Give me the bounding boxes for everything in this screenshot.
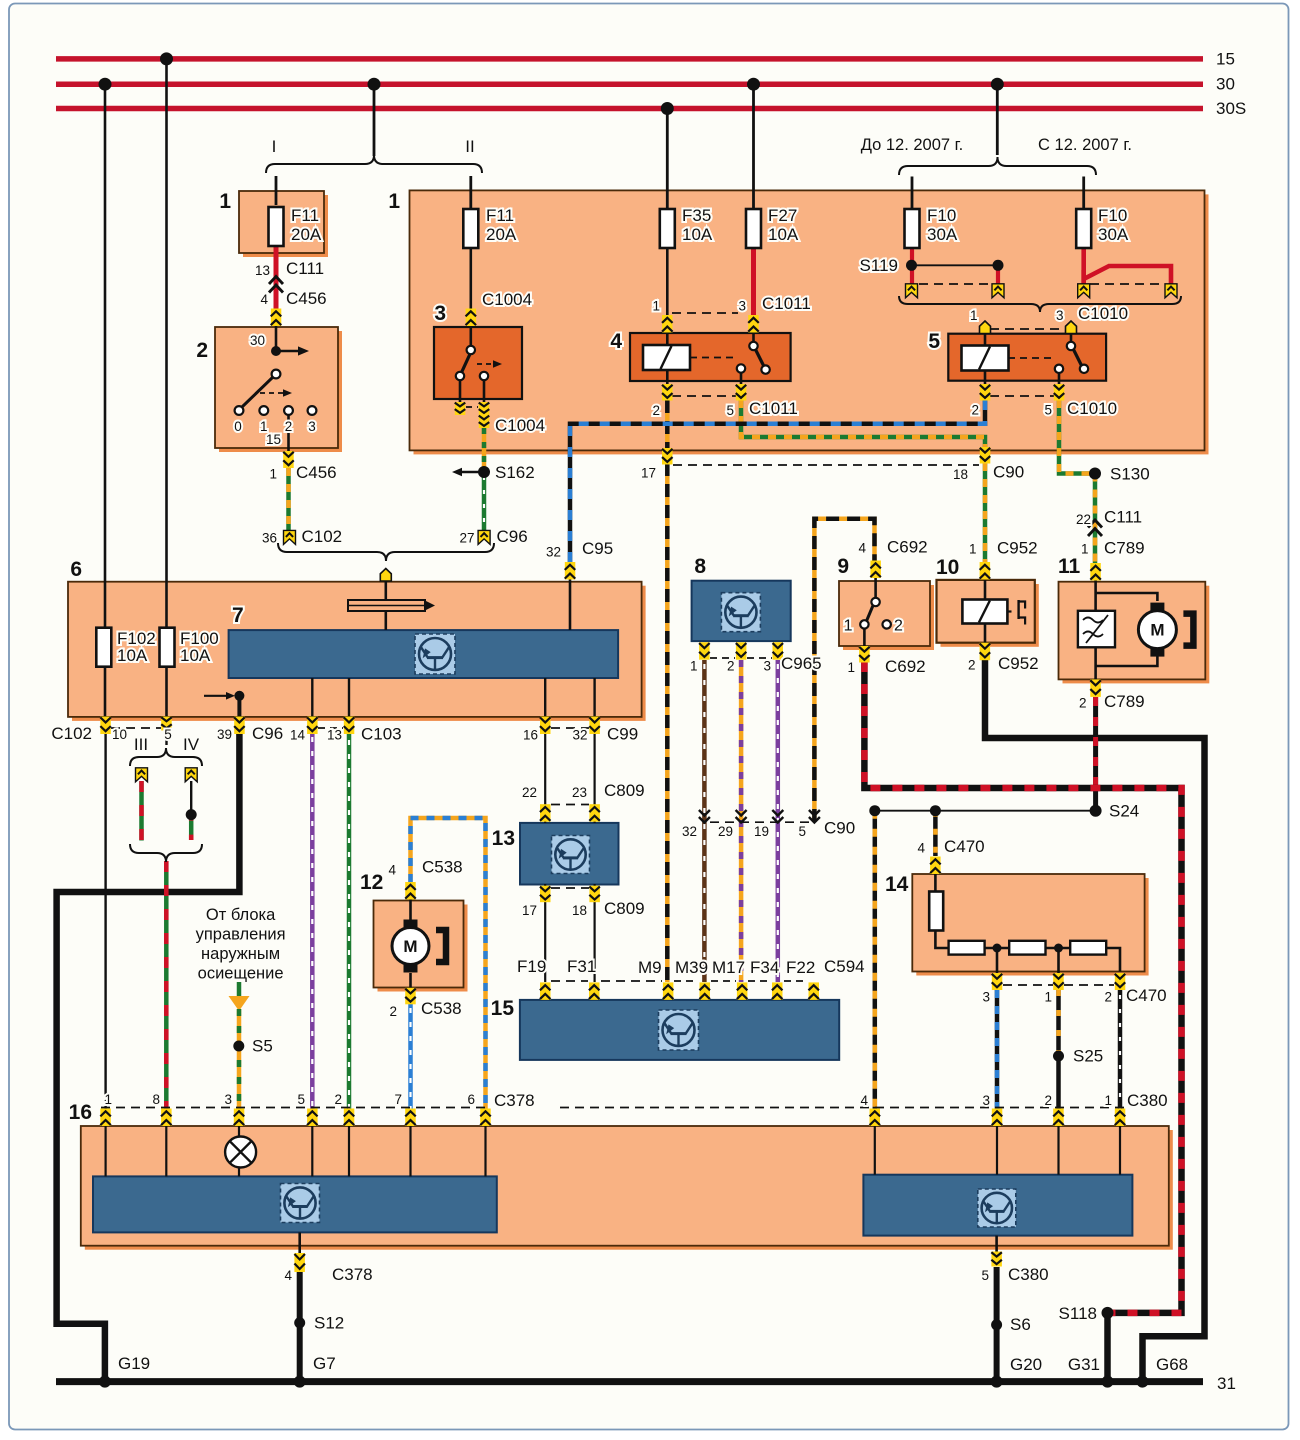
svg-text:C809: C809	[604, 899, 645, 918]
wire C470-2 to C380-1 black-white	[1118, 990, 1123, 1109]
svg-text:4: 4	[260, 292, 268, 307]
block7 key symbol	[348, 600, 425, 611]
junction IV dot	[186, 809, 197, 820]
wire C456-1 to C102-36 green-orange	[286, 468, 291, 531]
svg-text:2: 2	[1079, 696, 1087, 711]
relay 3 box	[434, 327, 522, 399]
svg-text:5: 5	[164, 727, 172, 742]
svg-text:C90: C90	[824, 819, 855, 838]
dashed row C378	[101, 1107, 488, 1109]
svg-text:G68: G68	[1156, 1355, 1188, 1374]
svg-text:F35: F35	[682, 206, 711, 225]
block 8 module	[692, 581, 791, 641]
svg-text:C96: C96	[252, 724, 283, 743]
relay10 thermal contact	[1008, 610, 1015, 612]
brace C1010 inputs	[899, 296, 1181, 312]
svg-text:C692: C692	[887, 538, 928, 557]
svg-text:27: 27	[459, 531, 474, 546]
svg-text:4: 4	[610, 330, 622, 353]
wire brace II to fuse F11 right	[469, 176, 472, 210]
svg-text:S25: S25	[1073, 1047, 1103, 1066]
wire block9 C692-4 feed orange-black	[814, 519, 874, 822]
svg-text:11: 11	[1058, 555, 1081, 578]
connector C103-14	[307, 717, 318, 735]
wire C470-3 to C380-3 blue-black	[995, 990, 1000, 1109]
wire block16 right internals	[874, 1126, 876, 1175]
svg-text:4: 4	[860, 1093, 868, 1108]
svg-text:S5: S5	[252, 1037, 273, 1056]
wire C1004 to relay3 contact	[469, 326, 472, 350]
wire relay4 coil through	[666, 330, 669, 385]
block 2 ignition switch	[219, 331, 342, 452]
wire C103-14 to pin5 purple-white	[310, 733, 315, 1109]
connector C103-13	[344, 717, 355, 735]
svg-text:управления: управления	[196, 926, 286, 944]
svg-text:4: 4	[388, 863, 396, 878]
block7 transistor icon	[415, 634, 455, 674]
dashed row C809 bottom	[551, 887, 589, 889]
svg-text:6: 6	[70, 558, 82, 581]
svg-text:C102: C102	[302, 527, 343, 546]
connector C594 row	[540, 982, 551, 1000]
ignition switch block2	[271, 346, 281, 356]
svg-text:C538: C538	[422, 858, 463, 877]
connector C99-16	[540, 717, 551, 735]
connector C90-18	[980, 447, 991, 464]
svg-text:10: 10	[936, 556, 959, 579]
svg-text:C789: C789	[1104, 692, 1145, 711]
svg-text:2: 2	[727, 659, 735, 674]
block 11 heater fan motor	[1063, 586, 1210, 684]
connector C111-22 inline	[1088, 520, 1102, 528]
svg-text:3: 3	[738, 299, 746, 314]
wire block9 contact1 to C692-1	[863, 628, 866, 646]
wire S5 to block16 pin3 orange-green	[237, 1009, 242, 1109]
svg-text:F11: F11	[291, 206, 319, 225]
svg-text:5: 5	[297, 1092, 305, 1107]
block 13 module	[520, 823, 619, 885]
svg-text:32: 32	[682, 824, 697, 839]
wire C103-13 to pin2 green-white	[347, 733, 352, 1109]
bus 30	[56, 81, 1203, 87]
connector C456 bottom block2	[283, 451, 294, 468]
connector C1011-3	[748, 315, 759, 333]
dashed row C594	[551, 980, 588, 982]
svg-text:C99: C99	[607, 725, 638, 744]
wire F10 left to S119 red	[910, 249, 914, 285]
wire C952-2 to G68 thick black	[985, 660, 1205, 1382]
svg-text:22: 22	[1076, 512, 1091, 527]
svg-text:1: 1	[1104, 1093, 1112, 1108]
svg-text:3: 3	[308, 419, 316, 434]
relay4 coil	[643, 345, 690, 370]
wire filter to C789-2	[1094, 647, 1097, 680]
svg-text:C111: C111	[1104, 508, 1142, 527]
block 15 module	[520, 1000, 839, 1060]
svg-text:2: 2	[1104, 990, 1112, 1005]
dashed row C1011 top	[672, 312, 738, 314]
svg-text:До 12. 2007 г.: До 12. 2007 г.	[861, 136, 964, 154]
wire relay5 pin2 to C95 blue-black	[570, 400, 985, 562]
wire C456 to switch contact 30	[275, 325, 278, 351]
connector C809-17	[540, 886, 551, 903]
svg-text:C1004: C1004	[495, 416, 545, 435]
fuse F10 before 2007	[905, 209, 920, 248]
svg-text:16: 16	[523, 728, 538, 743]
block 10 relay	[941, 584, 1039, 647]
connector C102-36 end	[284, 530, 296, 544]
connector C96-39	[234, 717, 245, 735]
svg-text:17: 17	[641, 466, 656, 481]
wire C99-32 to C809-23	[593, 733, 595, 805]
ground G20	[991, 1376, 1003, 1388]
svg-text:F34: F34	[750, 958, 779, 977]
wire C95 to block7	[569, 579, 572, 630]
svg-text:30S: 30S	[1216, 99, 1246, 118]
wire block16 left out to C378-4	[298, 1232, 301, 1253]
svg-text:C952: C952	[998, 654, 1039, 673]
wire F11 right to C1004	[469, 249, 472, 310]
junction dots block14	[993, 944, 1002, 953]
wire brace to F10 right	[1082, 177, 1085, 211]
svg-text:S130: S130	[1110, 465, 1150, 484]
wire relay5 pin5 to S130 green-orange	[1059, 400, 1095, 474]
connector C1010-3 pentagon	[1066, 321, 1077, 334]
junction S162	[478, 466, 490, 478]
junction S12	[294, 1317, 305, 1328]
connector C102-10	[100, 717, 111, 735]
svg-text:5: 5	[1044, 403, 1052, 418]
svg-text:S162: S162	[495, 463, 535, 482]
svg-text:M17: M17	[712, 958, 745, 977]
svg-text:2: 2	[334, 1092, 342, 1107]
svg-text:F11: F11	[486, 206, 514, 225]
connector pentagon block7 input	[380, 569, 391, 582]
wire relay4 contact down	[740, 372, 743, 385]
svg-text:8: 8	[152, 1092, 160, 1107]
svg-text:14: 14	[290, 728, 306, 743]
svg-text:5: 5	[981, 1268, 989, 1283]
svg-text:31: 31	[1217, 1374, 1236, 1393]
fuse F11 right	[463, 209, 478, 248]
wire block6 pin5 stub	[165, 733, 167, 745]
junction S24 line dots	[869, 805, 880, 816]
connector C1011-1	[662, 315, 673, 333]
svg-text:3: 3	[1056, 308, 1064, 323]
dashed row C103 block6	[318, 727, 343, 729]
connector C809-22	[540, 804, 551, 822]
dashed row C470	[1003, 984, 1053, 986]
junction bus30 x997	[991, 78, 1004, 91]
relay10 coil	[962, 600, 1007, 624]
fuse F10 after 2007	[1076, 209, 1091, 248]
wire brace to F10 left	[911, 177, 914, 211]
wire relay4 contact3 top	[752, 330, 755, 346]
relay4 dashed link	[690, 357, 738, 359]
connector C538-4	[405, 882, 416, 900]
wire brace I to block1 left	[275, 176, 278, 205]
wire block14 tap3	[996, 948, 999, 973]
connector S119 row	[906, 284, 918, 298]
svg-text:12: 12	[360, 871, 383, 894]
svg-text:S6: S6	[1010, 1315, 1031, 1334]
connector block6 pin5	[161, 717, 172, 731]
dashed row S119 connectors	[919, 283, 991, 285]
wire block8 pin2 to M17 orange-purple	[739, 660, 744, 982]
svg-text:F22: F22	[786, 958, 815, 977]
brace III IV top	[130, 748, 202, 766]
wire bus30S to fuse F35	[666, 109, 669, 211]
wire C809-17 to F19	[544, 902, 546, 982]
svg-text:C380: C380	[1008, 1265, 1049, 1284]
svg-text:C809: C809	[604, 781, 645, 800]
svg-text:C594: C594	[824, 957, 865, 976]
wire S119 line	[912, 264, 998, 266]
svg-text:4: 4	[284, 1268, 292, 1283]
connector C1010-2	[980, 384, 991, 401]
svg-text:M: M	[1150, 621, 1164, 640]
ground G31	[1102, 1376, 1114, 1388]
svg-text:C1011: C1011	[749, 399, 798, 418]
wire S119 right drop red	[996, 265, 1000, 284]
svg-text:C1010: C1010	[1067, 399, 1117, 418]
wire block6 arrow dot to C96-39	[237, 696, 241, 717]
svg-text:14: 14	[885, 873, 909, 896]
block 6 fuse box	[72, 586, 646, 721]
svg-text:C470: C470	[944, 837, 985, 856]
connector C470 row	[992, 973, 1003, 990]
connector C378 row	[100, 1109, 111, 1127]
relay 4 box	[630, 333, 791, 381]
wire F35 to relay4 pin1	[666, 249, 669, 317]
connector C1004 top relay3	[466, 309, 477, 327]
connector C965 row	[699, 642, 710, 660]
connector C99-32	[589, 717, 600, 735]
connector C1010-1 pentagon	[980, 321, 991, 334]
block12 motor	[404, 920, 418, 929]
svg-text:F27: F27	[768, 206, 797, 225]
brace 2007	[899, 157, 1096, 175]
junction S24	[1090, 805, 1102, 817]
wire S24 to block16 pin4 black-orange	[873, 811, 878, 1109]
fuse F11 left	[269, 207, 284, 246]
dashed row C809 top	[551, 804, 589, 806]
junction S25	[1053, 1051, 1064, 1062]
block 16 right inner module	[863, 1175, 1132, 1236]
svg-text:3: 3	[982, 1093, 990, 1108]
svg-text:M39: M39	[675, 958, 708, 977]
wire block11 branch to motor	[1096, 593, 1158, 601]
wire S130 to C789-1 green-orange	[1093, 474, 1098, 565]
ground bus 31	[56, 1378, 1203, 1385]
block15 transistor icon	[659, 1010, 699, 1050]
svg-text:C952: C952	[997, 539, 1038, 558]
svg-text:7: 7	[394, 1092, 402, 1107]
wire motor bottom to main	[1096, 656, 1158, 666]
connector C456 top block2	[271, 309, 282, 327]
connector III end	[136, 768, 148, 782]
wire C789-1 into block11	[1094, 580, 1097, 612]
svg-text:2: 2	[971, 403, 979, 418]
connector C380 row	[992, 1109, 1003, 1127]
svg-text:10A: 10A	[768, 225, 799, 244]
connector C789-2	[1090, 679, 1101, 697]
wire relay3 contacts down	[459, 376, 462, 402]
wire bus30 to fuse F27	[752, 84, 755, 210]
block 1 fuse relay box right	[414, 194, 1209, 454]
brace III IV bottom	[130, 844, 202, 862]
dashed row C102 block6	[111, 727, 161, 729]
connector C952-1	[980, 562, 991, 580]
wire S25 to C380-2	[1056, 1056, 1061, 1109]
svg-text:C378: C378	[494, 1091, 535, 1110]
svg-text:39: 39	[217, 727, 232, 742]
wire C809-22 into block13	[544, 821, 546, 823]
connector C809-18	[589, 886, 600, 903]
connector C692-4	[870, 561, 881, 579]
dashed row C1010 bottom	[990, 395, 1054, 397]
connector C1011-5	[736, 384, 747, 401]
svg-text:C378: C378	[332, 1265, 373, 1284]
wire bus30 to F102	[104, 84, 107, 630]
svg-text:13: 13	[255, 263, 270, 278]
wire C538-4 into block12 motor	[409, 899, 412, 920]
wire C809-18 to F31	[593, 902, 595, 982]
connector C470-4	[930, 857, 941, 875]
svg-text:1: 1	[269, 467, 277, 482]
block16 right transistor icon	[978, 1189, 1016, 1227]
svg-text:19: 19	[754, 824, 769, 839]
svg-text:0: 0	[234, 419, 242, 434]
wire C96-39 ground path thick	[57, 733, 240, 1382]
svg-text:C90: C90	[993, 463, 1024, 482]
svg-text:C1010: C1010	[1078, 304, 1128, 323]
orange arrow S5	[229, 996, 250, 1011]
wire F27 to C1011-3 red	[751, 249, 756, 317]
connector C1004 bottom relay3	[479, 402, 490, 415]
wire block16 right out to C380-5	[995, 1236, 998, 1252]
dashed row relay3	[466, 406, 478, 408]
svg-text:С 12. 2007 г.: С 12. 2007 г.	[1038, 136, 1132, 154]
wire block8 pin1 to M39 brown-white	[702, 660, 707, 982]
connector C952-2	[980, 643, 991, 661]
arrow row C90	[699, 810, 710, 816]
wire relay5 coil through	[984, 334, 987, 385]
fuse F100	[160, 628, 175, 667]
resistor R3 block14	[1070, 941, 1106, 955]
wire C378-4 to G7	[297, 1272, 303, 1382]
connector C789-1	[1090, 563, 1101, 581]
svg-text:20A: 20A	[486, 225, 517, 244]
svg-text:5: 5	[928, 330, 940, 353]
svg-text:1: 1	[969, 542, 977, 557]
svg-text:F31: F31	[567, 957, 596, 976]
svg-text:F10: F10	[927, 206, 956, 225]
svg-text:C95: C95	[582, 539, 613, 558]
svg-text:15: 15	[266, 432, 281, 447]
resistor R1 block14	[949, 941, 985, 955]
wire C789-2 to S24 red-black	[1093, 697, 1098, 788]
wire F10 right red elbow	[1084, 249, 1171, 285]
svg-text:1: 1	[388, 190, 400, 213]
svg-text:18: 18	[953, 467, 968, 482]
wire C952-1 into block10	[984, 580, 987, 600]
svg-text:5: 5	[798, 824, 806, 839]
wire III stub red-green	[139, 781, 144, 841]
svg-text:C692: C692	[885, 657, 926, 676]
svg-text:1: 1	[1081, 542, 1089, 557]
lamp block16	[225, 1137, 256, 1168]
svg-text:3: 3	[982, 990, 990, 1005]
dashed row C1010 top	[990, 328, 1066, 330]
junction bus30S x667	[661, 102, 674, 115]
wire relay5 contact3 top	[1070, 334, 1073, 346]
relay5 coil	[962, 346, 1009, 371]
svg-text:18: 18	[572, 903, 587, 918]
connector C380-5	[991, 1252, 1002, 1267]
connector C378-4	[294, 1253, 305, 1272]
fuse block14	[929, 892, 943, 931]
svg-text:20A: 20A	[291, 225, 322, 244]
svg-text:32: 32	[572, 728, 587, 743]
connector C538-2	[405, 988, 416, 1005]
dashed row C965	[710, 657, 735, 659]
svg-text:G7: G7	[313, 1354, 336, 1373]
svg-text:II: II	[465, 137, 474, 156]
connector C95-32	[565, 562, 576, 580]
svg-text:4: 4	[917, 841, 925, 856]
junction S5	[233, 1041, 244, 1052]
wire block14 resistor chain	[935, 930, 948, 949]
svg-text:G20: G20	[1010, 1355, 1042, 1374]
connector C96-27 end	[478, 530, 490, 544]
block 14 blower resistor	[916, 878, 1148, 976]
block6 arrow to dot	[204, 695, 228, 697]
svg-text:2: 2	[196, 339, 208, 362]
wire S24 junction line	[875, 810, 1096, 812]
junction bus30 x374	[368, 78, 381, 91]
block 12 washer pump	[378, 905, 468, 992]
connector relay3 left NC	[455, 402, 466, 415]
svg-text:1: 1	[104, 1092, 112, 1107]
relay4 contacts	[749, 342, 757, 350]
wire C538-2 to pin7 blue-white	[408, 1004, 413, 1109]
junction S118	[1102, 1307, 1114, 1319]
wire IV stub black	[190, 781, 192, 815]
dashed row C1011 bottom	[672, 395, 736, 397]
brace I-II	[266, 155, 482, 173]
svg-text:36: 36	[262, 531, 277, 546]
svg-text:M: M	[403, 937, 417, 956]
wire block13 to C809-17/18	[544, 884, 546, 886]
svg-text:I: I	[272, 137, 277, 156]
svg-text:1: 1	[652, 299, 660, 314]
svg-text:5: 5	[726, 403, 734, 418]
junction S6	[991, 1319, 1002, 1330]
svg-text:13: 13	[492, 827, 515, 850]
wire F102 to C102-10	[104, 667, 107, 718]
svg-text:4: 4	[858, 541, 866, 556]
dashed row C99 block6	[551, 727, 589, 729]
svg-text:S118: S118	[1059, 1304, 1097, 1323]
svg-text:C96: C96	[497, 527, 528, 546]
block13 transistor icon	[552, 836, 590, 874]
svg-text:IV: IV	[183, 735, 200, 754]
svg-text:1: 1	[219, 190, 231, 213]
svg-text:7: 7	[232, 604, 244, 627]
wire C90-18 to C952-1 green-orange	[983, 463, 988, 564]
svg-text:S12: S12	[314, 1314, 344, 1333]
